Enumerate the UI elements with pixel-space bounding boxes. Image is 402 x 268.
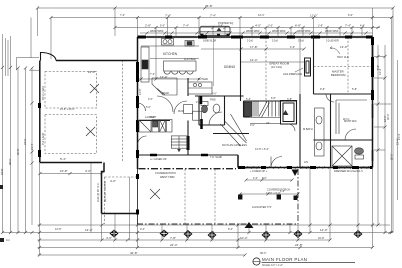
svg-text:21'-4": 21'-4" xyxy=(30,143,34,150)
svg-text:24'-0": 24'-0" xyxy=(23,138,27,145)
svg-text:M.BATH: M.BATH xyxy=(303,127,313,131)
svg-text:6'-0": 6'-0" xyxy=(280,190,285,193)
svg-text:4'-4": 4'-4" xyxy=(360,25,365,28)
svg-text:9'-0 x 4x10: 9'-0 x 4x10 xyxy=(42,132,45,145)
svg-text:WDW 5050: WDW 5050 xyxy=(297,29,311,33)
svg-text:4'-6": 4'-6" xyxy=(290,46,295,49)
svg-text:8'-0": 8'-0" xyxy=(228,228,233,231)
svg-text:42'-8": 42'-8" xyxy=(130,251,138,255)
svg-text:14'-4": 14'-4" xyxy=(85,228,93,232)
svg-text:NO PLAN CASELESS: NO PLAN CASELESS xyxy=(222,144,247,147)
svg-text:4'-6": 4'-6" xyxy=(106,236,112,240)
svg-text:38'-0": 38'-0" xyxy=(260,252,266,255)
svg-text:GAS FIREPLACE: GAS FIREPLACE xyxy=(283,73,302,76)
svg-text:9'-6": 9'-6" xyxy=(320,88,325,91)
svg-text:1/4: 1/4 xyxy=(6,239,10,242)
svg-text:WDW 5050: WDW 5050 xyxy=(150,29,164,33)
svg-text:9'-4": 9'-4" xyxy=(140,228,145,231)
svg-text:21'-8": 21'-8" xyxy=(88,70,96,74)
svg-text:3'-6": 3'-6" xyxy=(148,98,153,101)
svg-text:SCALE: 1/4" = 1'-0": SCALE: 1/4" = 1'-0" xyxy=(262,264,283,267)
svg-text:4'-0": 4'-0" xyxy=(255,24,261,28)
svg-text:7'-8": 7'-8" xyxy=(170,236,176,240)
svg-text:2x10 @ 16" O.C.: 2x10 @ 16" O.C. xyxy=(96,182,100,202)
svg-text:7'-4": 7'-4" xyxy=(183,24,189,28)
svg-text:(2)-9 1/2" LVL BM: (2)-9 1/2" LVL BM xyxy=(103,182,107,202)
svg-text:21'-4": 21'-4" xyxy=(397,139,400,145)
svg-text:5'-0": 5'-0" xyxy=(160,25,165,28)
svg-text:BUTLER: BUTLER xyxy=(198,78,208,81)
svg-text:5'-0": 5'-0" xyxy=(150,116,155,119)
svg-text:10'-8": 10'-8" xyxy=(60,169,68,173)
svg-text:5'-4": 5'-4" xyxy=(60,157,66,161)
svg-text:76'-8": 76'-8" xyxy=(205,4,213,8)
svg-text:13'-4": 13'-4" xyxy=(258,14,264,17)
svg-text:2'-8": 2'-8" xyxy=(318,25,323,28)
svg-text:WEST TRIM: WEST TRIM xyxy=(160,175,174,179)
svg-text:24'-4": 24'-4" xyxy=(170,243,178,247)
svg-text:+ CASED OP +: + CASED OP + xyxy=(250,170,268,173)
svg-text:5'-0": 5'-0" xyxy=(146,106,151,109)
svg-text:16080 SLDR: 16080 SLDR xyxy=(203,41,216,43)
svg-text:12'-4": 12'-4" xyxy=(160,75,168,79)
svg-text:7'-4": 7'-4" xyxy=(345,24,351,28)
svg-text:PWD: PWD xyxy=(210,99,216,102)
svg-text:38'-0": 38'-0" xyxy=(8,158,12,165)
svg-text:13'-0": 13'-0" xyxy=(340,45,348,49)
svg-text:8'-0": 8'-0" xyxy=(201,120,204,125)
svg-text:COVERED PATIO: COVERED PATIO xyxy=(155,171,176,175)
svg-text:4x4 RAFTER TYP: 4x4 RAFTER TYP xyxy=(252,206,272,209)
svg-text:2-2x6: 2-2x6 xyxy=(298,41,304,43)
svg-text:12'-4": 12'-4" xyxy=(250,58,258,62)
svg-text:30'-0": 30'-0" xyxy=(391,154,394,160)
svg-text:GREAT ROOM: GREAT ROOM xyxy=(269,62,290,66)
svg-text:7'-4": 7'-4" xyxy=(120,14,125,17)
svg-text:24'-8": 24'-8" xyxy=(295,243,303,247)
svg-text:12'-0" x 6'-0": 12'-0" x 6'-0" xyxy=(266,191,281,195)
svg-text:4'-0": 4'-0" xyxy=(253,177,258,180)
svg-text:(14' CLG): (14' CLG) xyxy=(271,65,282,69)
svg-text:4'-0": 4'-0" xyxy=(85,169,91,173)
svg-text:4'-6": 4'-6" xyxy=(110,179,116,183)
svg-text:WDW 3050: WDW 3050 xyxy=(246,29,260,33)
svg-text:5'-0": 5'-0" xyxy=(246,98,251,101)
svg-text:MAIN FLOOR PLAN: MAIN FLOOR PLAN xyxy=(262,257,307,262)
svg-text:16'-8": 16'-8" xyxy=(318,237,324,240)
svg-text:12'-6": 12'-6" xyxy=(138,88,142,95)
svg-text:3'-4": 3'-4" xyxy=(218,25,223,28)
svg-text:11'-0": 11'-0" xyxy=(310,14,317,18)
svg-text:14'-8" x 6'-0": 14'-8" x 6'-0" xyxy=(255,148,269,151)
svg-text:2-2x6: 2-2x6 xyxy=(272,41,278,43)
svg-text:12'-0": 12'-0" xyxy=(320,228,328,232)
svg-text:44'-8": 44'-8" xyxy=(0,168,4,175)
svg-text:17'-8": 17'-8" xyxy=(250,45,258,49)
svg-text:36x48: 36x48 xyxy=(162,92,169,95)
svg-text:TRAY CLG: TRAY CLG xyxy=(337,56,349,59)
svg-text:21'-8" x 23'-4": 21'-8" x 23'-4" xyxy=(60,108,75,111)
svg-text:+/- CASED OP: +/- CASED OP xyxy=(150,158,167,161)
svg-text:MUD: MUD xyxy=(178,110,184,113)
svg-text:13'-0": 13'-0" xyxy=(384,116,387,122)
svg-text:BEDROOM: BEDROOM xyxy=(331,73,346,77)
svg-text:5'-0": 5'-0" xyxy=(212,93,217,96)
svg-text:2'-8": 2'-8" xyxy=(145,24,151,28)
svg-text:UP: UP xyxy=(266,122,270,125)
svg-text:2-2x6: 2-2x6 xyxy=(247,41,253,43)
svg-text:KITCHEN: KITCHEN xyxy=(163,52,178,56)
svg-text:3'-0": 3'-0" xyxy=(250,124,255,127)
svg-text:DINING: DINING xyxy=(224,65,236,69)
svg-text:2'-8": 2'-8" xyxy=(196,101,201,104)
svg-text:6'-8": 6'-8" xyxy=(295,24,301,28)
svg-text:12'-8": 12'-8" xyxy=(55,228,61,231)
svg-text:FLAT BAR: FLAT BAR xyxy=(184,58,196,61)
svg-text:8'-0": 8'-0" xyxy=(262,177,267,180)
svg-text:WDW 5050: WDW 5050 xyxy=(325,29,339,33)
svg-text:WDW 3050: WDW 3050 xyxy=(272,29,286,33)
svg-text:LIN: LIN xyxy=(304,161,308,164)
svg-text:7'-4": 7'-4" xyxy=(210,14,216,18)
svg-text:5'-8": 5'-8" xyxy=(352,88,357,91)
svg-text:6'-0": 6'-0" xyxy=(348,14,353,17)
svg-text:2-2x10 HDR: 2-2x10 HDR xyxy=(326,41,339,43)
svg-text:16'-2 x 4x10: 16'-2 x 4x10 xyxy=(41,85,45,100)
svg-text:7'-4": 7'-4" xyxy=(165,14,171,18)
svg-text:7'-4": 7'-4" xyxy=(150,73,155,76)
svg-text:6'-8": 6'-8" xyxy=(377,65,380,70)
svg-text:30'-8": 30'-8" xyxy=(16,148,20,155)
svg-text:DRESSER DN 21x21x1.5: DRESSER DN 21x21x1.5 xyxy=(334,170,363,173)
svg-text:MSTR WIC: MSTR WIC xyxy=(344,120,357,123)
svg-text:T.O. SLAB: T.O. SLAB xyxy=(210,156,222,159)
svg-text:6'-8": 6'-8" xyxy=(271,97,276,100)
svg-text:3'-0": 3'-0" xyxy=(268,25,273,28)
svg-text:3'-8": 3'-8" xyxy=(287,98,292,101)
svg-text:10'-4": 10'-4" xyxy=(240,236,248,240)
